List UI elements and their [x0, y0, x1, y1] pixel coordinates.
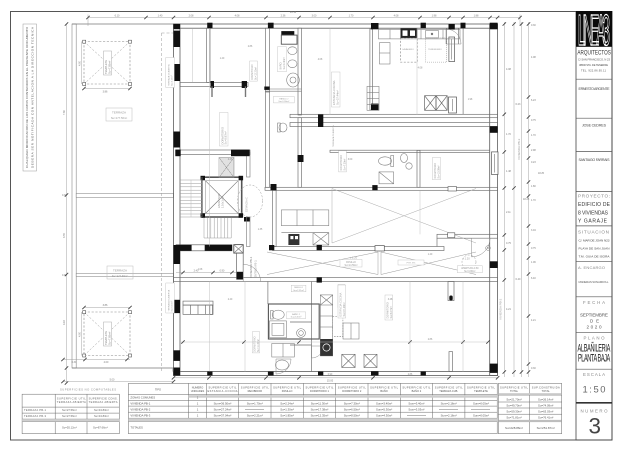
- door pill corridor top wall: [448, 187, 457, 191]
- terraza cubierta dashed boundary: [161, 33, 163, 371]
- svg-text:0.30: 0.30: [72, 361, 77, 364]
- svg-text:Sum=12.35m²: Sum=12.35m²: [311, 414, 329, 418]
- svg-text:2.40: 2.40: [228, 299, 233, 301]
- svg-text:NUMERO: NUMERO: [192, 385, 204, 389]
- closet wall upper: [180, 82, 248, 86]
- washer cluster: [272, 344, 295, 371]
- svg-text:0.75: 0.75: [531, 119, 536, 122]
- svg-text:VIVIENDA PB-3: VIVIENDA PB-3: [517, 138, 521, 160]
- lot bottom dim line: [63, 359, 130, 361]
- svg-text:⌀ 1.20: ⌀ 1.20: [462, 257, 470, 261]
- svg-text:4.00: 4.00: [79, 61, 82, 66]
- divider: [576, 78, 612, 80]
- table row text: [130, 396, 155, 430]
- svg-text:SUPERFICIE UTIL: SUPERFICIE UTIL: [57, 397, 87, 401]
- rotated room labels: [166, 58, 521, 353]
- svg-text:Su=14.59m²: Su=14.59m²: [344, 264, 357, 267]
- svg-text:Su=26.14m²: Su=26.14m²: [538, 397, 553, 401]
- top right door jamb walls: [446, 28, 448, 44]
- svg-text:Sum=2.16m²: Sum=2.16m²: [441, 402, 457, 406]
- wall B: [298, 28, 302, 115]
- svg-text:(ENTRADA PB-1): (ENTRADA PB-1): [255, 260, 258, 278]
- svg-text:1.48: 1.48: [506, 170, 511, 173]
- bedroom1 dim line: [192, 29, 194, 82]
- frigorifico label: [338, 285, 345, 308]
- svg-text:DORMITORIO 2: DORMITORIO 2: [342, 389, 362, 393]
- svg-text:1.70: 1.70: [531, 134, 536, 137]
- svg-text:Su=74.09m²: Su=74.09m²: [538, 403, 553, 407]
- PB-2 entry details: [486, 246, 491, 251]
- left wall: [174, 24, 181, 376]
- lot left boundary double line: [72, 24, 76, 368]
- svg-text:TEL. 922.86.95.11: TEL. 922.86.95.11: [581, 68, 607, 72]
- svg-text:4.08: 4.08: [506, 68, 511, 71]
- svg-text:1.98: 1.98: [432, 14, 437, 17]
- svg-text:1.88: 1.88: [474, 14, 479, 17]
- svg-text:TERRAZA PB-1: TERRAZA PB-1: [24, 408, 47, 412]
- svg-text:Su=7.85m²: Su=7.85m²: [107, 332, 111, 345]
- svg-text:4.08: 4.08: [394, 14, 399, 17]
- black caps wall C bottom: [371, 104, 379, 111]
- svg-text:Su=1.85m²: Su=1.85m²: [280, 414, 294, 418]
- svg-text:PLANTA BAJA: PLANTA BAJA: [578, 351, 610, 364]
- svg-text:18.25: 18.25: [523, 198, 530, 201]
- dash cells: [245, 410, 490, 416]
- door arc top right: [446, 29, 461, 44]
- svg-text:Sum=7.30m²: Sum=7.30m²: [344, 402, 360, 406]
- svg-text:Su=4.40m²: Su=4.40m²: [283, 57, 286, 69]
- svg-text:5.00: 5.00: [110, 379, 115, 382]
- dormitorio label lower right: [385, 295, 393, 320]
- upper unit second wall: [290, 123, 498, 127]
- svg-text:SUPERFICIE UTIL: SUPERFICIE UTIL: [338, 385, 367, 389]
- svg-text:TIPO: TIPO: [155, 387, 161, 391]
- interior main walls: [174, 28, 498, 371]
- svg-text:1.06: 1.06: [531, 261, 536, 264]
- svg-text:TENDEDERO: TENDEDERO: [428, 49, 442, 51]
- black corner blocks left wall: [174, 24, 181, 29]
- window pill corridor bottom wall: [375, 246, 384, 251]
- svg-text:4.21: 4.21: [506, 308, 511, 311]
- svg-text:1.48: 1.48: [228, 159, 233, 161]
- svg-text:TERRAZA CUBIERTA: TERRAZA CUBIERTA: [167, 64, 170, 86]
- templete square lower: [83, 311, 132, 357]
- svg-text:BAÑO 2: BAÑO 2: [292, 313, 301, 316]
- kitchen left wall: [273, 190, 277, 246]
- disclaimer box left margin: [23, 24, 37, 171]
- svg-text:SUPERFICIE CONS.: SUPERFICIE CONS.: [89, 397, 118, 401]
- svg-text:Sum=4.30m²: Sum=4.30m²: [376, 414, 392, 418]
- svg-text:⌀ 1.20: ⌀ 1.20: [350, 256, 358, 260]
- corridor pasillo label: [340, 260, 362, 268]
- black jambs top wall: [207, 23, 497, 30]
- svg-text:Su=7.30m²: Su=7.30m²: [343, 159, 346, 171]
- svg-text:Su=37.28m²: Su=37.28m²: [342, 302, 346, 316]
- svg-text:Su=2.24m²: Su=2.24m²: [280, 402, 294, 406]
- svg-text:VIVIENDA PB-1: VIVIENDA PB-1: [249, 256, 253, 278]
- svg-text:TERRAZA ABIERTA: TERRAZA ABIERTA: [57, 400, 86, 404]
- svg-text:1.80: 1.80: [531, 185, 536, 188]
- svg-text:ESTANCIA-COCINA: ESTANCIA-COCINA: [338, 293, 342, 317]
- svg-text:ERNESTO ARGENTE: ERNESTO ARGENTE: [579, 87, 611, 91]
- svg-text:EDIFICIO DE: EDIFICIO DE: [578, 202, 611, 208]
- svg-text:7.60: 7.60: [63, 110, 66, 115]
- svg-text:LINEA 3: LINEA 3: [578, 5, 610, 55]
- svg-text:1:50: 1:50: [583, 384, 606, 395]
- svg-text:4.08: 4.08: [531, 56, 536, 59]
- door arc PB-1 entry: [243, 264, 261, 281]
- svg-text:0.75: 0.75: [506, 242, 511, 245]
- svg-text:SUPERFICIE UTIL: SUPERFICIE UTIL: [402, 385, 431, 389]
- svg-text:LAVADERO: LAVADERO: [402, 48, 414, 51]
- svg-text:0.90: 0.90: [220, 269, 225, 272]
- svg-text:SUPERFICIE UTIL: SUPERFICIE UTIL: [273, 385, 302, 389]
- svg-text:DORMITORIO: DORMITORIO: [220, 127, 224, 144]
- svg-text:SITUACION: SITUACION: [578, 230, 609, 235]
- svg-text:2.86: 2.86: [428, 339, 433, 341]
- building exterior walls: [174, 24, 498, 376]
- svg-text:1.10x1.40: 1.10x1.40: [220, 196, 224, 208]
- mid bathroom fixtures: [379, 154, 413, 184]
- bedroom partition wall: [207, 28, 211, 82]
- main table grid: [128, 383, 561, 433]
- svg-text:Su=7.85m²: Su=7.85m²: [107, 61, 111, 74]
- svg-text:1.70: 1.70: [349, 14, 354, 17]
- svg-text:4.08: 4.08: [418, 67, 423, 70]
- svg-text:SUPERFICIE UTIL: SUPERFICIE UTIL: [500, 385, 529, 389]
- lower bath partition: [311, 282, 313, 372]
- svg-text:C/ SAN FRANCISCO, N 23: C/ SAN FRANCISCO, N 23: [578, 57, 611, 61]
- svg-text:Su=49.70m²: Su=49.70m²: [506, 403, 521, 407]
- svg-text:Su=5.10m²: Su=5.10m²: [171, 75, 174, 86]
- stub up: [449, 352, 453, 372]
- lot bottom edge: [72, 367, 174, 369]
- svg-text:VIVIENDA PB-2: VIVIENDA PB-2: [130, 408, 150, 412]
- svg-text:38600 STA. DE TENERIFE: 38600 STA. DE TENERIFE: [579, 63, 608, 67]
- svg-text:Sum=3.40m²: Sum=3.40m²: [408, 402, 424, 406]
- svg-text:JOSE CEDRES: JOSE CEDRES: [582, 124, 607, 128]
- svg-text:3.48: 3.48: [388, 299, 393, 301]
- terraza label upper: [106, 108, 132, 121]
- svg-text:TERRAZA: TERRAZA: [113, 269, 127, 273]
- kitchen top right counters: [367, 30, 460, 111]
- closet stub walls upper bedrooms: [211, 86, 213, 97]
- svg-text:ESTANCIA+C: ESTANCIA+C: [246, 197, 249, 212]
- window pill top right: [449, 37, 455, 62]
- svg-text:Su=55.12m²: Su=55.12m²: [62, 426, 77, 430]
- svg-text:Sum=2.16m²: Sum=2.16m²: [441, 414, 457, 418]
- svg-text:6.23: 6.23: [516, 103, 521, 106]
- svg-text:Su=10.09m²: Su=10.09m²: [437, 165, 440, 178]
- svg-text:TERRAZA: TERRAZA: [112, 111, 126, 115]
- svg-text:3.86: 3.86: [103, 304, 108, 307]
- right wall: [490, 24, 498, 376]
- svg-text:Sum=0.05m²: Sum=0.05m²: [473, 414, 489, 418]
- svg-text:4.00: 4.00: [104, 361, 109, 364]
- svg-text:1.40: 1.40: [158, 14, 163, 17]
- dimension lines right: [504, 22, 521, 377]
- svg-text:Sum=1.70m²: Sum=1.70m²: [247, 402, 263, 406]
- svg-text:3.00: 3.00: [348, 159, 353, 161]
- svg-text:Su=76.41m²: Su=76.41m²: [538, 415, 553, 419]
- svg-text:Sum=36.50m²: Sum=36.50m²: [214, 402, 232, 406]
- svg-text:Su=27.56m²: Su=27.56m²: [62, 408, 77, 412]
- lower unit top wall: [174, 278, 498, 282]
- bath partition wall mid band: [417, 150, 420, 187]
- svg-text:6.40: 6.40: [516, 278, 521, 281]
- svg-text:TERRAZA CUB.: TERRAZA CUB.: [439, 389, 458, 393]
- templete dims: [81, 42, 83, 85]
- ventilation shafts with X: [425, 96, 448, 111]
- black caps closet wall: [211, 81, 215, 88]
- upper ramp X band: [332, 189, 476, 244]
- dimension line bottom: [174, 377, 498, 379]
- svg-text:Su=37.44m²: Su=37.44m²: [336, 90, 340, 105]
- window pill near shafts: [449, 97, 457, 113]
- terraza label lower: [107, 266, 133, 279]
- wall A extension down: [266, 91, 270, 187]
- stair top wall: [176, 150, 250, 155]
- corridor top wall: [265, 187, 498, 190]
- svg-text:UNIDADES: UNIDADES: [191, 389, 205, 393]
- svg-text:SUPERFICIE UTIL: SUPERFICIE UTIL: [467, 385, 496, 389]
- svg-text:SUPERFICIES NO COMPUTABLES: SUPERFICIES NO COMPUTABLES: [60, 387, 116, 391]
- svg-text:Su=4.86m²: Su=4.86m²: [464, 270, 476, 273]
- svg-text:PASILLO: PASILLO: [294, 286, 303, 289]
- svg-text:1.35: 1.35: [258, 229, 263, 231]
- sidebar outer box: [576, 12, 612, 441]
- svg-text:1.08: 1.08: [198, 269, 203, 271]
- svg-text:TOTAL: TOTAL: [510, 389, 519, 393]
- svg-text:Sum=37.04m²: Sum=37.04m²: [214, 414, 232, 418]
- svg-text:T.M. GUIA DE ISORA: T.M. GUIA DE ISORA: [579, 254, 611, 258]
- svg-text:A. ENCARGO: A. ENCARGO: [578, 265, 605, 270]
- pasillo label upper: [273, 96, 294, 103]
- svg-text:Su=177.56m²: Su=177.56m²: [111, 116, 127, 120]
- svg-text:DEBERA SER NOTIFICADA CON ANTE: DEBERA SER NOTIFICADA CON ANTELACION A L…: [31, 26, 35, 168]
- svg-text:TOTALES: TOTALES: [130, 426, 143, 430]
- lower kitchen appliance column: [320, 295, 343, 356]
- svg-text:Su=1.30m²: Su=1.30m²: [278, 100, 289, 103]
- door arc lower unit kitchen: [312, 346, 324, 358]
- svg-text:Su=1.30m²: Su=1.30m²: [280, 408, 294, 412]
- svg-text:SUPERFICIE UTIL: SUPERFICIE UTIL: [241, 385, 270, 389]
- svg-text:MADERAS SONAMICS.L: MADERAS SONAMICS.L: [579, 280, 609, 284]
- stair side walls: [247, 152, 251, 177]
- svg-text:1.98: 1.98: [468, 99, 473, 101]
- svg-text:Su=27.56m²: Su=27.56m²: [62, 414, 77, 418]
- strip dim line between corridor and lower unit: [176, 272, 236, 274]
- svg-text:SUP.CONSTRUIDA: SUP.CONSTRUIDA: [532, 385, 560, 389]
- svg-text:0.90: 0.90: [328, 374, 333, 376]
- door arc lower left unit: [276, 359, 291, 374]
- svg-text:6.23: 6.23: [531, 99, 536, 102]
- tread band above elevator: [219, 158, 234, 178]
- pasillo label lower: [291, 285, 306, 292]
- svg-text:ARQUITECTOS: ARQUITECTOS: [577, 50, 610, 57]
- svg-text:Sum=27.24m²: Sum=27.24m²: [214, 408, 232, 412]
- upper bathroom fixtures: [281, 31, 294, 35]
- bottom wall: [174, 372, 498, 376]
- svg-text:PASILLO: PASILLO: [279, 97, 288, 100]
- svg-text:Su=228.86m²: Su=228.86m²: [505, 426, 523, 430]
- svg-text:SUPERFICIE UTIL: SUPERFICIE UTIL: [435, 385, 464, 389]
- svg-text:Sum=6.50m²: Sum=6.50m²: [344, 408, 360, 412]
- svg-text:Su=8.07m²: Su=8.07m²: [390, 306, 393, 318]
- stair flight lower: [204, 218, 231, 239]
- svg-text:TERRAZA CUBIERTA: TERRAZA CUBIERTA: [332, 125, 335, 147]
- svg-text:Sum=11.30m²: Sum=11.30m²: [311, 402, 329, 406]
- svg-text:Su=12.23m²: Su=12.23m²: [254, 67, 257, 80]
- interior small dims: [198, 46, 473, 376]
- templete square upper: [83, 40, 132, 85]
- svg-text:3.55: 3.55: [63, 233, 66, 238]
- svg-text:SANTIAGO FARRAIS: SANTIAGO FARRAIS: [579, 158, 611, 162]
- svg-text:3: 3: [589, 414, 602, 439]
- black jambs right wall: [490, 126, 498, 373]
- svg-text:VIVIENDA PB-1: VIVIENDA PB-1: [130, 402, 150, 406]
- dimension line top: [88, 15, 520, 27]
- svg-text:SUPERFICIE UTIL: SUPERFICIE UTIL: [209, 385, 238, 389]
- PB-1 kitchen band A: [281, 210, 328, 245]
- svg-text:VIVIENDA PB-3: VIVIENDA PB-3: [130, 414, 150, 418]
- svg-text:Sum=2.21m²: Sum=2.21m²: [247, 414, 263, 418]
- svg-text:Su=59.30m²: Su=59.30m²: [506, 409, 521, 413]
- svg-text:0.23: 0.23: [531, 161, 536, 164]
- stair flight left: [180, 177, 202, 217]
- svg-text:Su=3.40m²: Su=3.40m²: [291, 316, 302, 319]
- svg-text:RECIBIDOR: RECIBIDOR: [248, 389, 263, 393]
- svg-text:Su=43.83m²: Su=43.83m²: [94, 408, 109, 412]
- svg-text:ZONAS COMUNES: ZONAS COMUNES: [130, 396, 155, 400]
- svg-text:Su=87.66m²: Su=87.66m²: [93, 426, 108, 430]
- svg-text:PTE. 8%: PTE. 8%: [407, 263, 416, 265]
- left table superficies no computables: [22, 394, 119, 434]
- wall C: [370, 29, 373, 110]
- logo LINEA 3 black box: [576, 11, 612, 47]
- svg-text:Su=63.03m²: Su=63.03m²: [538, 409, 553, 413]
- svg-text:Su=11.30m²: Su=11.30m²: [257, 339, 260, 352]
- svg-text:ASCENSOR: ASCENSOR: [217, 193, 221, 208]
- svg-text:CUALQUIER MODIFICACION DE LOS: CUALQUIER MODIFICACION DE LOS DATOS CONT…: [25, 26, 29, 168]
- svg-text:Sum=17.38m²: Sum=17.38m²: [311, 408, 329, 412]
- closet wall lower: [183, 301, 213, 305]
- vestibule dashed ellipse: [237, 185, 262, 217]
- svg-text:4.16: 4.16: [63, 320, 66, 325]
- svg-text:6.10: 6.10: [115, 14, 120, 17]
- estancia label lower unit: [338, 285, 346, 318]
- svg-text:Sum=5.30m²: Sum=5.30m²: [376, 408, 392, 412]
- svg-text:SUPERFICIE UTIL: SUPERFICIE UTIL: [306, 385, 335, 389]
- svg-text:Su=8.87m²: Su=8.87m²: [224, 131, 228, 144]
- svg-text:PASILLO: PASILLO: [282, 389, 293, 393]
- svg-text:Su=177.56m²: Su=177.56m²: [112, 274, 128, 278]
- svg-text:2.98: 2.98: [531, 149, 536, 152]
- svg-text:VIVIENDA PB-2: VIVIENDA PB-2: [499, 298, 503, 320]
- svg-text:TERRAZA PB-3: TERRAZA PB-3: [24, 414, 47, 418]
- terrace divider upper: [76, 193, 173, 197]
- bottom wall black jambs: [207, 371, 426, 375]
- door arc corridor to PB-2: [472, 238, 491, 257]
- svg-text:4.08: 4.08: [235, 14, 240, 17]
- svg-text:2.86: 2.86: [248, 46, 253, 48]
- svg-text:1.40: 1.40: [220, 58, 225, 60]
- lot top edge: [72, 23, 174, 25]
- black jambs left wall: [174, 31, 181, 361]
- black blocks corridor: [175, 115, 452, 301]
- svg-text:Su=43.83m²: Su=43.83m²: [94, 414, 109, 418]
- svg-text:Su=2.31m²: Su=2.31m²: [293, 289, 304, 292]
- svg-text:Su=21.70m²: Su=21.70m²: [506, 397, 521, 401]
- corridor bottom wall: [273, 247, 444, 251]
- svg-text:ESTANCIA-COCINA: ESTANCIA-COCINA: [208, 389, 238, 393]
- svg-text:SEPTIEMBRE: SEPTIEMBRE: [580, 312, 608, 317]
- svg-text:1.40: 1.40: [428, 254, 433, 256]
- upper unit bottom wall: [290, 114, 498, 117]
- svg-text:18.25: 18.25: [538, 172, 545, 175]
- thick divider: [576, 402, 612, 404]
- kitchen table lower unit: [343, 323, 359, 339]
- svg-text:PLAYA DE SAN JUAN: PLAYA DE SAN JUAN: [579, 246, 610, 250]
- svg-text:DORMITORIO 1: DORMITORIO 1: [310, 389, 330, 393]
- svg-text:TERRAZA ABIERTA: TERRAZA ABIERTA: [89, 400, 118, 404]
- svg-text:Y GARAJE: Y GARAJE: [578, 218, 608, 224]
- wall A: [266, 28, 270, 92]
- corridor south L-wall: [176, 245, 232, 251]
- svg-text:3.86: 3.86: [103, 91, 108, 94]
- svg-text:0.30: 0.30: [531, 367, 536, 370]
- window pill corridor step wall: [448, 233, 455, 238]
- svg-text:3.04: 3.04: [531, 229, 536, 232]
- bedroom dim line lower unit: [180, 341, 488, 343]
- svg-text:6.40: 6.40: [531, 277, 536, 280]
- svg-text:1.70: 1.70: [506, 133, 511, 136]
- right outer dim column: [528, 22, 530, 377]
- cooktop appliance dark: [401, 28, 418, 38]
- svg-text:8 VIVIENDAS: 8 VIVIENDAS: [578, 210, 609, 216]
- svg-text:2020: 2020: [587, 325, 602, 330]
- wall D thin: [462, 28, 464, 114]
- wall B extension down: [298, 118, 302, 188]
- svg-text:TEMPLETE: TEMPLETE: [474, 389, 488, 393]
- svg-text:0.75: 0.75: [531, 247, 536, 250]
- svg-text:TOTAL: TOTAL: [542, 389, 551, 393]
- terrace divider lower: [76, 273, 173, 276]
- svg-text:2.11: 2.11: [506, 211, 511, 214]
- window pill right wall: [492, 152, 499, 175]
- svg-text:C/. MAR DE JOAN N23: C/. MAR DE JOAN N23: [579, 238, 610, 242]
- svg-text:4.08: 4.08: [318, 59, 323, 61]
- stub T down: [448, 282, 454, 301]
- svg-text:15.00: 15.00: [327, 380, 334, 383]
- shower X boxes lower unit: [342, 354, 377, 367]
- svg-text:4.00: 4.00: [79, 332, 82, 337]
- svg-text:2.08: 2.08: [189, 14, 194, 17]
- elevator shaft: [201, 176, 251, 222]
- svg-text:Sum=0.05m²: Sum=0.05m²: [473, 402, 489, 406]
- svg-text:4.21: 4.21: [531, 319, 536, 322]
- svg-text:Sum=3.03m²: Sum=3.03m²: [408, 408, 424, 412]
- interior grid lines: [209, 28, 463, 371]
- svg-text:SUPERFICIE UTIL: SUPERFICIE UTIL: [370, 385, 399, 389]
- svg-text:2.36: 2.36: [281, 14, 286, 17]
- svg-text:PROYECTO:: PROYECTO:: [578, 193, 610, 198]
- svg-text:Su=251.87m²: Su=251.87m²: [537, 426, 555, 430]
- lower unit bathroom box: [268, 304, 319, 339]
- svg-text:Sum=8.50m²: Sum=8.50m²: [344, 414, 360, 418]
- svg-text:1.70: 1.70: [531, 199, 536, 202]
- svg-text:Su=71.81m²: Su=71.81m²: [506, 415, 521, 419]
